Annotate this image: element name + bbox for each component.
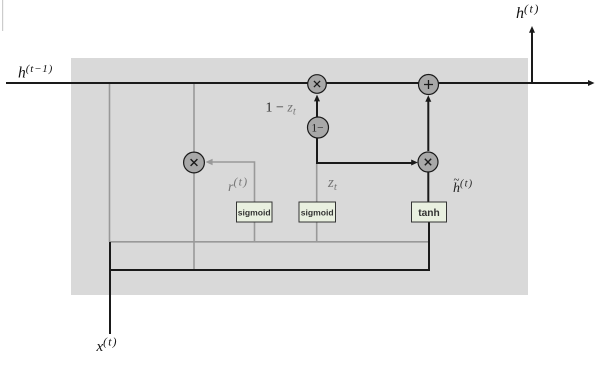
svg-text:tanh: tanh <box>418 208 440 219</box>
node: plus (add) <box>419 75 439 95</box>
arrowhead into times-C right <box>411 160 418 166</box>
svg-text:x(t): x(t) <box>96 337 118 356</box>
box: sigmoid (update gate) <box>299 202 336 222</box>
node: times-C (z * h-tilde) <box>418 152 438 172</box>
wire: h state line (black horizontal) <box>6 82 590 84</box>
wire: sigmoid z top stub (gray) <box>316 163 318 202</box>
node: times-B (r * h(t-1)) <box>184 152 205 173</box>
wire: h(t-1) drop to reset multiply (gray) <box>193 84 195 153</box>
wire: gate feed bus horizontal (gray) <box>109 241 428 243</box>
svg-text:h(t−1): h(t−1) <box>18 63 53 82</box>
box: tanh (candidate) <box>412 202 447 222</box>
svg-text:sigmoid: sigmoid <box>238 207 271 217</box>
svg-text:~: ~ <box>454 174 460 186</box>
svg-text:sigmoid: sigmoid <box>301 207 334 217</box>
arrowhead h line right <box>588 80 595 86</box>
arrowhead into times-A up <box>314 95 320 102</box>
node: times-A (z * h(t-1)) <box>308 75 327 94</box>
wire: sigmoid z bottom stub (gray) <box>316 222 318 242</box>
wire: tanh bottom to candidate bus (black) <box>428 222 430 271</box>
cell body (gray background box) <box>71 58 528 295</box>
svg-text:h(t): h(t) <box>516 2 540 23</box>
wire: r gate elbow into multiply (gray) <box>212 162 255 202</box>
svg-text:1 − zt: 1 − zt <box>266 101 297 118</box>
wire: tanh top to times-C (black) <box>427 172 429 202</box>
wire: z branch vertical through 1-minus (black) <box>316 100 318 163</box>
arrowhead into plus up <box>425 95 431 102</box>
wire: x(t) input vertical (black) <box>109 242 111 334</box>
wire: times-C up to plus (black) <box>427 100 429 151</box>
arrowhead into reset multiply (gray, left) <box>206 159 213 165</box>
node: one-minus <box>308 117 329 138</box>
box: sigmoid (reset gate) <box>237 202 273 222</box>
wire: sigmoid r bottom stub (gray) <box>254 222 256 242</box>
wire: h(t-1) vertical feed into gates (gray) <box>109 84 111 242</box>
wire: reset multiply output down to tanh bus (gray) <box>193 172 195 270</box>
arrowhead h(t) up <box>529 26 535 33</box>
wire: z branch horizontal to times-C (black) <box>316 162 412 164</box>
wire: h(t) output vertical (black) <box>531 31 533 83</box>
svg-text:1−: 1− <box>311 123 323 135</box>
wire: candidate bus horizontal (black) <box>109 269 430 271</box>
frame artifact top-left <box>2 0 3 31</box>
